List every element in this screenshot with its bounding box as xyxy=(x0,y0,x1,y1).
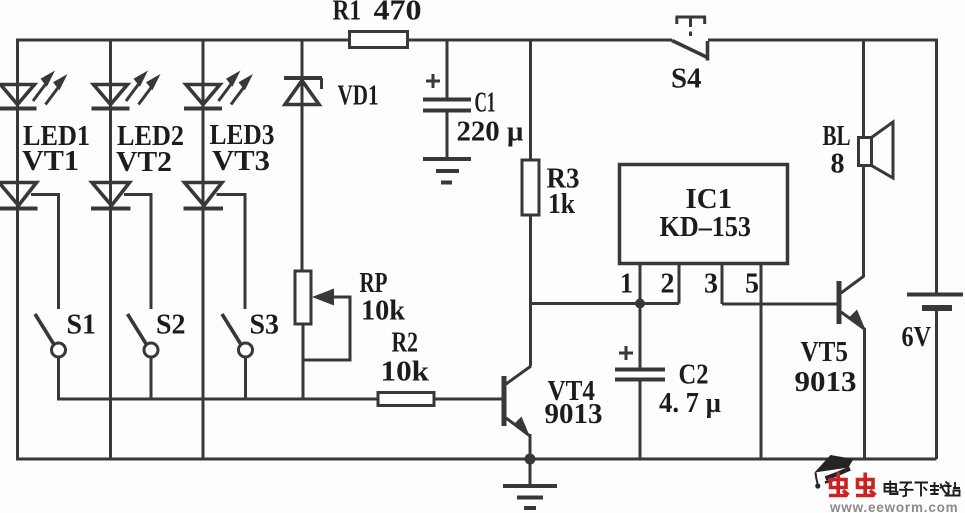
wire IC pin 1 stub xyxy=(620,264,640,304)
svg-text:10k: 10k xyxy=(381,356,430,388)
svg-text:VD1: VD1 xyxy=(338,80,379,112)
svg-text:470: 470 xyxy=(374,0,422,27)
wire S2 to row xyxy=(150,357,153,399)
watermark graduation cap logo xyxy=(815,455,854,489)
battery 6V xyxy=(902,295,964,354)
watermark black site name text xyxy=(885,481,961,497)
svg-text:9013: 9013 xyxy=(795,366,857,398)
svg-text:4. 7 µ: 4. 7 µ xyxy=(659,387,721,419)
wire IC pin 5 stub to bottom rail xyxy=(745,264,761,460)
wire VT4 emitter to bottom rail xyxy=(529,434,532,459)
watermark red text chong chong xyxy=(829,473,876,496)
wire IC pin 3 stub xyxy=(704,264,722,305)
svg-text:R1: R1 xyxy=(333,0,362,27)
wire S3 to row xyxy=(244,357,247,399)
svg-text:2: 2 xyxy=(661,268,675,300)
svg-text:S3: S3 xyxy=(250,309,280,341)
svg-text:S4: S4 xyxy=(671,63,702,95)
phototransistor VT3 xyxy=(184,145,271,209)
wire battery to bottom rail xyxy=(935,311,938,459)
zener diode VD1 xyxy=(284,39,379,272)
svg-text:www.eeworm.com: www.eeworm.com xyxy=(829,500,958,513)
phototransistor VT2 xyxy=(91,146,172,209)
wire VT5 emitter to bottom rail xyxy=(863,328,866,459)
svg-text:10k: 10k xyxy=(361,295,406,327)
wire R2 to VT4 base xyxy=(432,398,502,401)
ground main xyxy=(503,486,557,508)
svg-text:3: 3 xyxy=(704,268,718,300)
phototransistor VT1 xyxy=(0,145,79,209)
battery 6V top wire xyxy=(935,39,938,294)
svg-text:S2: S2 xyxy=(156,309,186,341)
LED LED3 xyxy=(184,71,275,152)
wire bottom rail to main ground xyxy=(529,459,532,486)
node IC pin1 junction xyxy=(635,299,645,309)
IC IC1 KD-153 xyxy=(620,165,788,264)
switch S2 xyxy=(128,309,186,358)
switch S4 pushbutton xyxy=(671,17,708,95)
wire top supply rail left segment xyxy=(16,39,672,42)
svg-text:1k: 1k xyxy=(548,188,576,220)
potentiometer RP xyxy=(295,267,406,360)
capacitor C2 xyxy=(615,346,721,419)
watermark url text xyxy=(829,500,958,513)
wire S1 to row xyxy=(57,357,60,399)
wire VT5 collector to speaker xyxy=(862,39,865,278)
wire VT4 collector node to IC pin1 node xyxy=(531,302,680,305)
wire R3 to VT4 collector xyxy=(529,215,532,366)
svg-text:C1: C1 xyxy=(475,87,496,119)
svg-text:8: 8 xyxy=(831,148,845,180)
svg-text:VT5: VT5 xyxy=(801,336,849,368)
wire RP bottom to row xyxy=(302,324,305,399)
speaker BL xyxy=(823,120,894,180)
svg-text:1: 1 xyxy=(620,268,633,300)
wire VT1 to S1 bend xyxy=(31,195,59,310)
svg-text:220 µ: 220 µ xyxy=(457,116,524,148)
capacitor C1 xyxy=(423,74,524,148)
switch S1 xyxy=(35,309,96,358)
wire R3 branch top xyxy=(529,39,532,161)
wire top supply rail right segment xyxy=(708,39,937,42)
transistor VT5 xyxy=(795,276,865,398)
wire C1 to ground xyxy=(446,112,449,158)
node VT4 emitter junction xyxy=(525,454,536,465)
svg-text:S1: S1 xyxy=(67,309,97,341)
wire IC pin3 to VT5 base xyxy=(722,303,837,306)
wire switch row to R2 xyxy=(57,398,380,401)
svg-text:9013: 9013 xyxy=(545,398,603,430)
resistor R1 xyxy=(333,0,422,48)
svg-text:VT1: VT1 xyxy=(22,145,79,177)
transistor VT4 xyxy=(504,366,603,436)
wire LED2 branch vertical xyxy=(109,39,112,460)
wire VT2 to S2 bend xyxy=(124,195,151,310)
LED LED2 xyxy=(92,71,185,153)
svg-text:6V: 6V xyxy=(902,321,932,353)
svg-text:5: 5 xyxy=(745,268,759,300)
svg-text:KD–153: KD–153 xyxy=(660,211,752,243)
wire bottom ground rail xyxy=(16,458,937,461)
switch S3 xyxy=(222,309,279,358)
resistor R3 xyxy=(522,160,580,220)
wire IC pin 2 stub xyxy=(661,264,680,304)
wire C2 branch xyxy=(639,304,642,369)
wire LED3 branch vertical xyxy=(202,39,205,460)
wire C1 branch xyxy=(446,39,449,99)
svg-text:VT2: VT2 xyxy=(116,146,172,178)
ground C1 xyxy=(423,159,471,183)
wire LED1 branch vertical xyxy=(16,39,19,460)
svg-text:VT3: VT3 xyxy=(212,145,270,177)
svg-text:R2: R2 xyxy=(392,327,419,359)
svg-text:C2: C2 xyxy=(679,359,709,391)
LED LED1 xyxy=(0,71,90,153)
wire VT3 to S3 bend xyxy=(217,195,246,310)
wire C2 to bottom rail xyxy=(639,381,642,459)
resistor R2 xyxy=(378,327,434,406)
